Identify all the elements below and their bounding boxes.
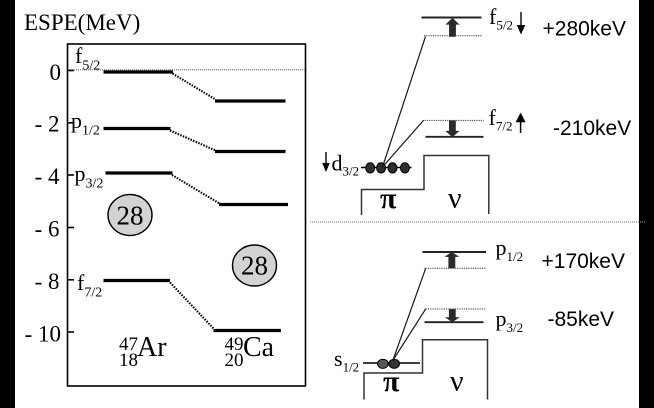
- svg-text:ν: ν: [448, 182, 462, 215]
- svg-text:-85keV: -85keV: [548, 308, 615, 331]
- proton 4 on d3/2: [400, 163, 409, 173]
- coupling line d3/2 to f7/2: [383, 120, 424, 167]
- coupling line d3/2 to f5/2: [383, 37, 426, 168]
- tick -2: [68, 122, 75, 124]
- level f5/2 neutron solid: [422, 17, 482, 19]
- level p1/2 Ca: [215, 150, 286, 153]
- spin down arrow before d3/2: [322, 152, 330, 172]
- level f5/2 dotted: [424, 35, 482, 37]
- svg-text:28: 28: [241, 251, 268, 281]
- svg-text:+170keV: +170keV: [542, 250, 626, 273]
- svg-text:- 6: - 6: [35, 217, 60, 242]
- level p1/2 neutron solid: [423, 251, 487, 253]
- svg-text:π: π: [380, 182, 397, 215]
- left black bar: [0, 0, 15, 408]
- tick 0: [68, 70, 75, 72]
- separator dotted line: [310, 221, 646, 223]
- spin up arrow: [516, 113, 526, 133]
- level p1/2 dotted: [425, 267, 487, 269]
- frame box of left panel: [68, 44, 306, 386]
- right black bar: [639, 0, 654, 408]
- coupling line s1/2 to p3/2: [393, 309, 426, 361]
- level f7/2 dotted: [424, 119, 484, 121]
- level f7/2 Ar: [104, 279, 171, 282]
- block arrow down f7/2: [446, 121, 458, 137]
- level f5/2 Ca: [215, 99, 286, 102]
- potential well top diagram: [362, 156, 489, 216]
- level d3/2 proton: [361, 167, 412, 169]
- coupling line s1/2 to p1/2: [393, 268, 426, 360]
- svg-text:-210keV: -210keV: [553, 117, 631, 140]
- level p1/2 Ar: [104, 127, 171, 130]
- magic number 28 circle left: [108, 195, 152, 236]
- connector f5/2: [173, 74, 216, 100]
- level f7/2 Ca: [214, 329, 282, 332]
- svg-text:π: π: [383, 365, 400, 398]
- svg-text:+280keV: +280keV: [543, 18, 627, 41]
- svg-text:- 10: - 10: [25, 322, 61, 347]
- tick -8: [68, 279, 75, 281]
- proton 3 on d3/2: [388, 163, 397, 173]
- level p3/2 dotted: [425, 308, 487, 310]
- svg-text:0: 0: [50, 60, 62, 85]
- proton 1 on d3/2: [366, 163, 375, 173]
- level s1/2 proton: [363, 362, 420, 364]
- svg-text:20: 20: [225, 350, 244, 371]
- tick -6: [68, 227, 75, 229]
- block arrow up f5/2: [446, 18, 458, 36]
- tick -4: [68, 174, 75, 176]
- tick -10: [68, 331, 75, 333]
- proton 2 on d3/2: [377, 163, 386, 173]
- potential well bottom diagram: [364, 340, 488, 400]
- spin down arrow: [517, 12, 525, 35]
- connector p1/2: [170, 131, 216, 151]
- svg-text:Ca: Ca: [243, 332, 275, 363]
- svg-text:28: 28: [117, 201, 144, 231]
- proton 1 on s1/2: [378, 359, 389, 368]
- svg-text:ESPE(MeV): ESPE(MeV): [24, 10, 140, 35]
- connector p3/2: [172, 175, 220, 204]
- magic number 28 circle right: [233, 245, 277, 286]
- block arrow down p3/2: [446, 310, 458, 322]
- zero dashed line: [68, 69, 305, 71]
- svg-text:- 8: - 8: [35, 269, 60, 294]
- proton 2 on s1/2: [389, 359, 400, 368]
- level p3/2 Ar: [106, 171, 173, 174]
- svg-text:ν: ν: [450, 365, 464, 398]
- block arrow up p1/2: [446, 252, 458, 268]
- svg-text:18: 18: [119, 350, 138, 371]
- level p3/2 Ca: [219, 203, 288, 206]
- level f5/2 Ar: [104, 70, 174, 73]
- level p3/2 neutron solid: [425, 321, 484, 323]
- svg-text:Ar: Ar: [137, 332, 167, 363]
- connector f7/2: [170, 283, 214, 330]
- svg-text:- 2: - 2: [35, 112, 60, 137]
- level f7/2 neutron solid: [426, 136, 484, 138]
- svg-text:- 4: - 4: [35, 164, 60, 189]
